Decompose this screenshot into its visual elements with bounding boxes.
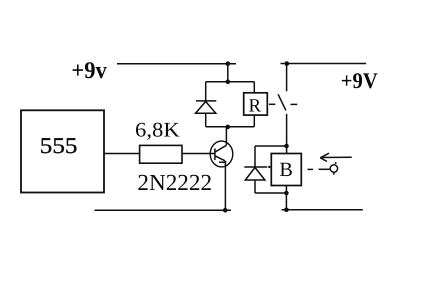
wire top-right +9V rail (281, 63, 367, 65)
wire 555 output to resistor (105, 153, 140, 155)
diode D2 (across B, cathode up) (244, 167, 267, 180)
wire B bottom to bottom-right rail (285, 186, 287, 210)
IC U1 555 box (21, 110, 104, 192)
pushbutton press-direction arrow (320, 153, 351, 161)
dash-dot mechanical link R to contact (269, 103, 297, 105)
svg-text:2N2222: 2N2222 (137, 170, 212, 195)
wire transistor emitter down to bottom rail (224, 161, 226, 211)
svg-text:+9v: +9v (71, 58, 106, 84)
svg-text:+9V: +9V (341, 68, 378, 93)
wire bottom-left rail (95, 209, 232, 211)
junction dot on top-left rail (226, 61, 231, 66)
pushbutton actuator dash-dot link (308, 168, 331, 170)
svg-text:6,8K: 6,8K (135, 118, 180, 141)
svg-text:555: 555 (40, 133, 78, 158)
node bottom of D1/R loop (226, 125, 231, 130)
wire right rail down to relay contact (286, 64, 288, 92)
relay contact switch blade (278, 94, 286, 110)
wire resistor to transistor base (182, 153, 215, 155)
node top of D1/R loop (226, 80, 231, 85)
pushbutton dash-dot dots (333, 162, 337, 175)
junction dot emitter to bottom rail (223, 208, 228, 213)
resistor R1 6,8K (140, 145, 182, 163)
wire top-left +9v rail (117, 63, 236, 65)
svg-text:R: R (249, 95, 262, 116)
node top of D2/B loop (284, 144, 289, 149)
wire contact down to B loop (286, 114, 288, 154)
relay coil R box (244, 93, 268, 115)
junction dot on top-right rail (285, 61, 290, 66)
wire bottom-right rail (282, 209, 363, 211)
svg-text:B: B (279, 159, 292, 181)
wire B loop bottom horizontal (255, 192, 286, 194)
node bottom of D2/B loop (284, 191, 289, 196)
wire loop right vertical (to relay coil R) (253, 82, 255, 127)
wire loop top horizontal (206, 81, 255, 83)
dash-dot dot left of B box (268, 166, 270, 168)
diode D1 (flyback across relay coil, cathode up) (196, 101, 217, 113)
junction dot on bottom-right rail (284, 208, 289, 213)
wire loop left vertical (diode branch) (205, 82, 207, 127)
wire loop bottom horizontal (206, 126, 255, 128)
wire from top rail down to diode/relay loop (227, 64, 229, 82)
wire B loop top horizontal (255, 145, 287, 147)
pushbutton circle (330, 165, 337, 172)
wire B loop left vertical (diode branch) (254, 146, 256, 193)
buzzer B box (271, 154, 301, 186)
transistor Q1 2N2222 (210, 141, 233, 167)
wire loop bottom to transistor collector (225, 127, 227, 145)
